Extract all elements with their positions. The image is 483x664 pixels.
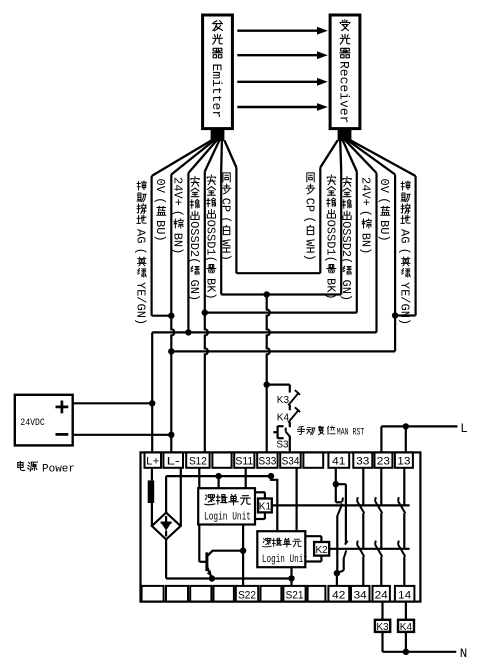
svg-text:Login Unit: Login Unit [204, 512, 251, 524]
svg-text:L+: L+ [146, 456, 159, 468]
svg-text:K4: K4 [400, 622, 413, 633]
svg-text:S3: S3 [276, 439, 289, 450]
svg-text:L: L [460, 422, 468, 436]
svg-text:S21: S21 [286, 589, 304, 601]
svg-text:33: 33 [356, 456, 369, 468]
svg-text:S33: S33 [259, 456, 277, 468]
svg-text:K4: K4 [277, 412, 290, 423]
svg-text:K1: K1 [259, 501, 272, 512]
svg-text:BU): BU) [377, 220, 391, 242]
svg-text:YE/GN): YE/GN) [134, 282, 148, 325]
svg-text:OSSD2(: OSSD2( [339, 221, 353, 264]
svg-text:OSSD1(: OSSD1( [323, 220, 337, 263]
svg-text:BN): BN) [171, 233, 185, 255]
svg-text:24V+: 24V+ [171, 177, 185, 206]
svg-text:14: 14 [398, 589, 411, 601]
svg-text:41: 41 [332, 456, 345, 468]
svg-text:24V+: 24V+ [359, 177, 373, 206]
svg-text:Power: Power [42, 463, 75, 475]
svg-text:BK): BK) [203, 278, 217, 300]
svg-text:BK): BK) [323, 278, 337, 300]
svg-text:0V: 0V [153, 179, 167, 194]
svg-text:0V: 0V [377, 179, 391, 194]
svg-text:(: ( [302, 216, 316, 223]
svg-text:24VDC: 24VDC [20, 418, 45, 429]
svg-text:(: ( [398, 248, 412, 255]
svg-text:Emitter: Emitter [209, 64, 224, 119]
svg-text:GN): GN) [187, 280, 201, 302]
svg-text:OSSD2(: OSSD2( [187, 221, 201, 264]
svg-text:CP: CP [302, 198, 316, 212]
svg-text:(: ( [171, 210, 185, 217]
svg-text:(: ( [134, 248, 148, 255]
svg-text:WH): WH) [302, 239, 316, 261]
svg-text:AG: AG [398, 229, 412, 243]
svg-text:42: 42 [332, 589, 345, 601]
svg-text:WH): WH) [219, 239, 233, 261]
svg-text:K2: K2 [315, 545, 328, 556]
svg-text:BN): BN) [359, 233, 373, 255]
svg-text:CP: CP [219, 198, 233, 212]
svg-text:Receiver: Receiver [337, 61, 352, 123]
svg-text:AG: AG [134, 229, 148, 243]
svg-text:23: 23 [377, 456, 390, 468]
svg-text:BU): BU) [153, 220, 167, 242]
svg-text:GN): GN) [339, 280, 353, 302]
svg-text:L-: L- [167, 456, 181, 468]
svg-text:S22: S22 [238, 589, 256, 601]
svg-text:YE/GN): YE/GN) [398, 282, 412, 325]
svg-text:34: 34 [354, 589, 367, 601]
svg-text:K3: K3 [277, 395, 290, 406]
svg-text:S34: S34 [282, 456, 300, 468]
svg-text:(: ( [153, 197, 167, 204]
svg-text:(: ( [359, 210, 373, 217]
svg-text:K3: K3 [376, 622, 389, 633]
svg-text:(: ( [219, 216, 233, 223]
svg-text:24: 24 [375, 589, 388, 601]
svg-text:N: N [460, 647, 468, 661]
svg-text:Login Unit: Login Unit [262, 554, 308, 566]
svg-text:OSSD1(: OSSD1( [203, 220, 217, 263]
svg-text:MAN RST: MAN RST [337, 428, 365, 439]
svg-text:13: 13 [397, 456, 410, 468]
svg-text:(: ( [377, 197, 391, 204]
svg-text:S12: S12 [189, 456, 207, 468]
svg-text:S11: S11 [235, 456, 253, 468]
